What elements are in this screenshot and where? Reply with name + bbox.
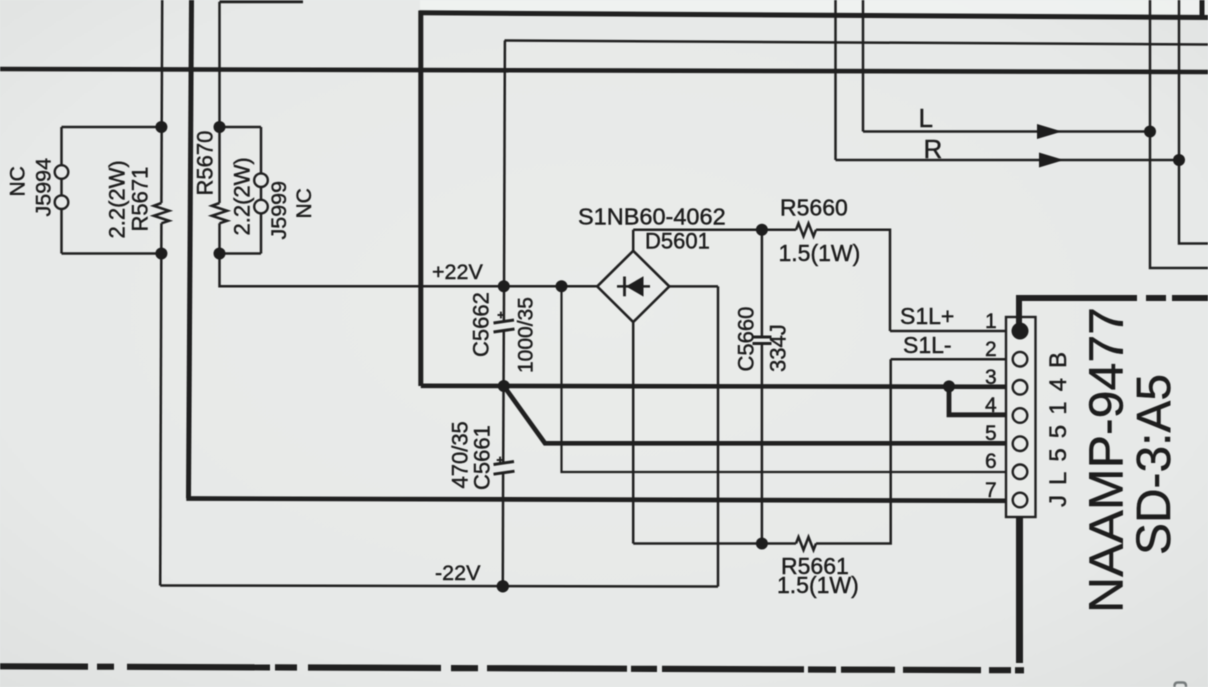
capacitor C5661 plates (494, 462, 515, 475)
svg-text:J5994: J5994 (32, 158, 56, 217)
resistor R5670 (212, 203, 227, 223)
svg-text:S1NB60-4062: S1NB60-4062 (578, 204, 726, 230)
wire thick main horizontal bus (0, 69, 1208, 72)
connector pin 1 dot (1012, 323, 1029, 340)
bridge rectifier D5601 diamond (597, 251, 669, 322)
wire R5660 to S1L+ corner (816, 230, 890, 331)
wire C5662 to bus dot (502, 331, 505, 464)
connector thick wire pin 1 to top (1019, 298, 1137, 331)
node dot R line end (1173, 154, 1185, 166)
corner mark bottom right (1175, 683, 1187, 687)
page edge light strip top right (420, 0, 1208, 14)
connector pin 2 circle (1013, 352, 1028, 367)
arrow R (1039, 153, 1064, 168)
node dot L line end (1144, 126, 1156, 138)
wire pin 6 branch vertical (562, 286, 1013, 472)
node dot R5661 C5660 (756, 538, 768, 550)
resistor R5661 (796, 537, 816, 550)
wire between J5999 circles (260, 187, 263, 200)
wire L signal line (863, 130, 1150, 133)
svg-text:D5601: D5601 (645, 229, 710, 254)
svg-text:NC: NC (7, 166, 30, 196)
wire bridge top to R5660 (633, 229, 796, 232)
wire thick vertical bus left (189, 0, 192, 498)
wire below R5671 to -22V corner (160, 223, 161, 585)
node dot R5670 bottom (214, 248, 226, 260)
jumper J5994 circle lower (55, 195, 69, 209)
svg-text:NC: NC (293, 188, 316, 218)
wire bridge right corner (669, 285, 718, 288)
capacitor C5661 plus sign (497, 457, 504, 464)
node dot R5671 top (155, 121, 167, 133)
capacitor C5662 plates (494, 320, 515, 332)
wire thick branch to pin 4 (949, 386, 1012, 414)
wire thick bus 1 to pin 3 (421, 386, 1012, 387)
node dot bus1 pin4 branch (943, 380, 955, 392)
node dot +22V C5662 (498, 280, 510, 292)
node dot R5660 left (756, 224, 768, 236)
wire left block top rail (62, 126, 162, 129)
jumper J5999 circle lower (254, 200, 268, 214)
svg-text:2: 2 (985, 338, 997, 361)
wire left block bottom rail (62, 252, 162, 255)
wire S1L- to pin 2 (891, 358, 1012, 361)
connector pin 3 circle (1013, 380, 1028, 395)
wire thin horizontal net (505, 41, 1208, 45)
svg-text:R: R (924, 134, 943, 164)
wire vertical to L bend (862, 0, 865, 132)
svg-text:2.2(2W): 2.2(2W) (105, 160, 130, 238)
node dot +22V pin6 branch (556, 280, 568, 292)
svg-text:4: 4 (985, 394, 997, 417)
capacitor C5660 upper lead (761, 230, 764, 337)
wire C5661 to -22V rail (502, 473, 505, 586)
svg-text:C5660: C5660 (734, 307, 759, 372)
wire right block right vertical upper (260, 127, 263, 173)
node dot R5670 top (214, 121, 226, 133)
connector pin 5 circle (1013, 436, 1028, 451)
svg-text:5: 5 (985, 422, 997, 445)
node dot bus1 C5662 (498, 380, 510, 392)
svg-text:S1L+: S1L+ (900, 303, 954, 329)
diode triangle D5601 (626, 276, 644, 296)
svg-text:1000/35: 1000/35 (515, 297, 538, 373)
wire C5662 C5661 vertical upper (504, 41, 505, 322)
connector JL5514B body (1006, 317, 1036, 517)
svg-text:3: 3 (985, 366, 997, 389)
svg-text:S1L-: S1L- (903, 332, 952, 358)
svg-text:+22V: +22V (432, 260, 483, 284)
wire S1L+ to pin 1 (890, 330, 1014, 333)
wire right block bottom rail (220, 252, 262, 255)
svg-text:7: 7 (985, 479, 997, 502)
wire right block top rail (220, 126, 262, 129)
section chain line vertical below connector (1016, 518, 1023, 664)
resistor R5660 (796, 223, 816, 236)
diode line inside D5601 (617, 285, 650, 288)
svg-text:1.5(1W): 1.5(1W) (779, 240, 861, 266)
node dot R5671 bottom (155, 248, 167, 260)
wire right block right vertical lower (260, 214, 263, 254)
svg-text:L: L (919, 103, 933, 133)
svg-text:1.5(1W): 1.5(1W) (777, 572, 859, 598)
svg-text:R5660: R5660 (780, 195, 848, 221)
wire vertical through R5670 (218, 2, 221, 203)
wire thick diagonal to bus 2 (504, 386, 1012, 443)
capacitor C5662 plus sign (498, 312, 505, 319)
svg-text:C5662: C5662 (469, 292, 494, 357)
svg-text:R5670: R5670 (193, 131, 218, 196)
svg-text:J5999: J5999 (267, 181, 291, 240)
wire top stub horizontal (220, 0, 304, 3)
wire thick bus to pin 7 (186, 499, 1012, 501)
diode cathode bar D5601 (623, 277, 626, 297)
wire below R5670 to +22V corner (220, 223, 598, 286)
wire thick top bus horizontal (420, 13, 1208, 18)
wire thick vertical bus center (418, 11, 423, 387)
svg-text:SD-3:A5: SD-3:A5 (1127, 374, 1181, 555)
svg-text:2.2(2W): 2.2(2W) (230, 157, 255, 235)
connector pin 4 circle (1013, 408, 1028, 423)
wire R5661 to pin 2 riser (816, 359, 891, 543)
connector pin 7 circle (1013, 493, 1028, 508)
wire R signal line (836, 159, 1180, 162)
wire thick top bus stub (1200, 0, 1205, 17)
capacitor C5660 lower lead (761, 344, 764, 544)
wire R dot vertical drop (1179, 0, 1208, 244)
connector pin 6 circle (1013, 465, 1028, 480)
node dot -22V C5661 (497, 580, 509, 592)
svg-text:C5661: C5661 (470, 425, 495, 490)
jumper J5994 circle upper (55, 165, 69, 179)
wire left block left vertical upper (60, 127, 63, 165)
resistor R5671 (154, 203, 169, 223)
jumper J5999 circle upper (254, 173, 268, 187)
svg-text:-22V: -22V (435, 561, 481, 585)
wire bridge bottom vertical (632, 322, 635, 543)
svg-text:6: 6 (985, 450, 997, 473)
wire L dot vertical drop (1150, 0, 1208, 268)
capacitor C5660 plates (753, 337, 772, 344)
svg-text:1: 1 (985, 310, 997, 333)
svg-text:R5671: R5671 (128, 167, 153, 232)
section chain line top dash 2 (1172, 295, 1208, 301)
wire -22V rail (160, 586, 718, 587)
wire bridge top corner up (632, 230, 635, 251)
svg-text:334J: 334J (766, 324, 791, 372)
wire vertical through R5671 (160, 0, 163, 203)
wire bridge bottom to R5661 (633, 542, 796, 545)
wire vertical to R bend (834, 0, 837, 160)
wire bridge right vertical down (717, 286, 720, 586)
section chain line top dash 1 (1146, 295, 1166, 301)
svg-text:NAAMP-9477: NAAMP-9477 (1080, 307, 1134, 613)
section chain line bottom (0, 666, 1024, 670)
wire left block left vertical lower (60, 209, 63, 253)
arrow L (1037, 124, 1062, 139)
wire between J5994 circles (60, 179, 63, 195)
